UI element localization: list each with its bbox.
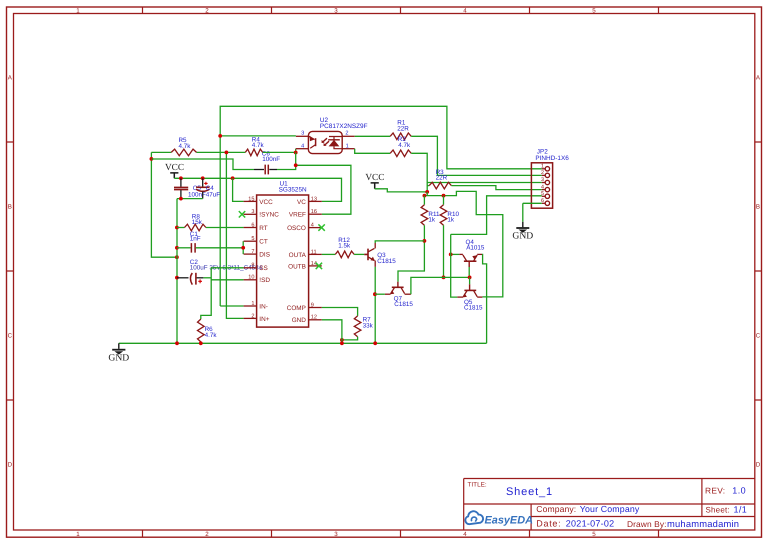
svg-text:2: 2: [251, 313, 254, 319]
U1 pin 3 !SYNC: [244, 213, 257, 215]
wire Q4 base down: [468, 267, 470, 277]
svg-text:OUTA: OUTA: [289, 252, 307, 259]
svg-text:VREF: VREF: [289, 212, 306, 219]
resistor R1: [390, 133, 411, 140]
wire net IN- / JP2 pin1: [220, 106, 542, 306]
resistor R10: [440, 205, 447, 225]
U1 pin 8 SS: [244, 267, 257, 269]
EasyEDA logo: [465, 511, 483, 524]
svg-text:2: 2: [205, 531, 209, 538]
svg-text:VCC: VCC: [165, 163, 184, 173]
VCC power symbol left: [170, 173, 178, 178]
U1 pin 2 IN+: [244, 317, 257, 319]
U2 pin 1: [342, 148, 355, 150]
svg-text:C1815: C1815: [394, 301, 413, 308]
junction: [231, 176, 235, 180]
svg-text:TITLE:: TITLE:: [468, 481, 487, 488]
svg-text:4: 4: [541, 184, 544, 190]
junction: [179, 176, 183, 180]
wire to C6 left: [151, 159, 254, 170]
wire R3 left: [427, 185, 429, 187]
transistor Q4 A1015: [464, 260, 477, 262]
svg-text:Sheet_1: Sheet_1: [506, 486, 553, 498]
U1 pin 15 VCC: [244, 200, 257, 202]
svg-text:Company:: Company:: [536, 504, 576, 514]
wire Q3 emitter to Q7 emitter: [375, 293, 385, 295]
U1 pin 7 DIS: [244, 253, 257, 255]
no-connect X OSCO: [318, 224, 324, 230]
svg-text:6: 6: [251, 222, 254, 228]
U1 pin 11 OUTA: [309, 253, 322, 255]
svg-text:8: 8: [251, 263, 254, 269]
wire C2 right: [203, 277, 211, 279]
svg-text:OUTB: OUTB: [288, 263, 306, 270]
svg-text:GND: GND: [292, 317, 307, 324]
wire C5 C4 bottoms: [177, 198, 203, 200]
title block: [464, 479, 755, 531]
svg-text:4: 4: [311, 223, 314, 229]
junction: [175, 276, 179, 280]
svg-text:VCC: VCC: [259, 199, 273, 206]
wire VCC rail to VC pin13: [174, 178, 341, 201]
svg-text:2021-07-02: 2021-07-02: [566, 519, 615, 529]
svg-text:4: 4: [301, 143, 304, 149]
capacitor C6: [254, 169, 264, 171]
wire Q4 collector: [451, 253, 460, 255]
svg-text:PC817X2NSZ9F: PC817X2NSZ9F: [320, 123, 368, 130]
U2 internal phototransistor: [315, 138, 317, 146]
U1 pin 14 OUTB: [309, 265, 322, 267]
svg-text:!SYNC: !SYNC: [259, 212, 279, 219]
svg-text:4.7k: 4.7k: [252, 142, 265, 149]
U1 pin 16 VREF: [309, 213, 322, 215]
wire left vertical to GND net: [151, 152, 177, 257]
U1 pin 4 OSCO: [309, 227, 322, 229]
optocoupler U2 PC817 body: [308, 131, 342, 153]
junction: [468, 276, 472, 280]
junction: [175, 246, 179, 250]
U2 pin 2: [342, 135, 355, 137]
transistor Q3 C1815: [364, 249, 368, 261]
wire output bracket left: [451, 234, 458, 297]
svg-text:3: 3: [301, 131, 304, 137]
wire Q7 collector to base node: [411, 277, 470, 294]
svg-text:PINHD-1X6: PINHD-1X6: [535, 155, 569, 162]
wire R5 left: [151, 151, 171, 153]
junction: [294, 163, 298, 167]
svg-text:A1015: A1015: [466, 244, 485, 251]
svg-text:4.7k: 4.7k: [205, 332, 218, 339]
svg-text:B: B: [8, 204, 12, 211]
wire U2 pin1 to R2: [355, 149, 391, 154]
wire R8 to RT: [206, 227, 244, 229]
svg-text:GND: GND: [108, 352, 129, 363]
U1 pin 12 GND: [309, 319, 322, 321]
svg-text:Drawn By:: Drawn By:: [627, 519, 667, 529]
wire to SS pin: [211, 267, 243, 269]
svg-text:GND: GND: [512, 231, 533, 242]
svg-text:1: 1: [251, 301, 254, 307]
wire node step: [426, 192, 428, 196]
wire R7 bottom: [342, 337, 358, 340]
JP2 pin 2: [542, 174, 545, 176]
svg-text:REV:: REV:: [705, 485, 725, 495]
svg-text:C1815: C1815: [377, 258, 396, 265]
connector JP2 PINHD-1X6 body: [531, 163, 552, 208]
wire VCC rail to pin15: [233, 178, 244, 201]
junction: [225, 151, 229, 155]
svg-text:IN-: IN-: [259, 303, 268, 310]
JP2 pin 3: [542, 182, 545, 184]
wire C1 left: [177, 247, 191, 249]
capacitor C4: [202, 178, 204, 187]
junction: [423, 194, 427, 198]
svg-text:1k: 1k: [447, 217, 455, 224]
svg-text:Date:: Date:: [536, 519, 561, 529]
U1 pin 5 CT: [244, 240, 257, 242]
svg-text:16: 16: [311, 209, 317, 215]
JP2 pin 1: [542, 168, 545, 170]
wire OUTA to R12: [322, 253, 336, 255]
svg-text:VC: VC: [297, 199, 306, 206]
U1 pin 13 VC: [309, 200, 322, 202]
svg-text:3: 3: [334, 8, 338, 15]
wire CT-DIS bracket: [242, 241, 244, 254]
svg-text:4: 4: [463, 531, 467, 538]
svg-text:CT: CT: [259, 239, 268, 246]
wire to !SD pin: [211, 279, 243, 281]
resistor R11: [421, 205, 428, 225]
wire to IN- pin: [220, 305, 243, 307]
svg-text:100nF: 100nF: [262, 156, 280, 163]
svg-text:1: 1: [76, 8, 80, 15]
svg-text:4.7k: 4.7k: [179, 143, 192, 150]
svg-text:B: B: [756, 204, 760, 211]
junction: [199, 341, 203, 345]
junction: [425, 190, 429, 194]
U2 pin 3: [296, 135, 308, 137]
svg-text:9: 9: [311, 302, 314, 308]
svg-text:5: 5: [251, 236, 254, 242]
junction: [373, 341, 377, 345]
resistor R7: [354, 316, 361, 337]
svg-text:COMP: COMP: [287, 305, 306, 312]
U2 pin 4: [296, 148, 309, 150]
resistor R4: [245, 149, 262, 156]
wire R10 top: [443, 196, 445, 205]
wire VCC2 to node: [375, 189, 428, 192]
resistor R2: [390, 150, 411, 157]
no-connect X SYNC: [239, 211, 245, 217]
wire C1 to CT/DIS: [196, 247, 243, 249]
resistor R3: [429, 182, 451, 189]
svg-text:!SD: !SD: [259, 277, 270, 284]
svg-text:OSCO: OSCO: [287, 225, 306, 232]
wire to JP2 pin3: [427, 182, 542, 184]
wire C6 to VREF node: [277, 165, 296, 169]
junction: [179, 197, 183, 201]
svg-text:1/1: 1/1: [734, 504, 748, 514]
svg-text:VCC: VCC: [365, 173, 384, 183]
svg-text:C: C: [8, 333, 13, 340]
svg-text:EasyEDA: EasyEDA: [485, 515, 534, 527]
svg-text:DIS: DIS: [259, 252, 270, 259]
wire COMP to R7: [322, 308, 358, 316]
wire GND drop: [522, 203, 524, 222]
resistor R5: [171, 149, 196, 156]
wire R2 to VCC node: [411, 153, 427, 192]
transistor Q7 C1815: [392, 286, 404, 288]
svg-text:2: 2: [345, 131, 348, 137]
svg-text:15: 15: [248, 196, 254, 202]
wire VCC to Q5 collector: [424, 191, 502, 297]
wire R11 top: [423, 196, 425, 205]
svg-text:3: 3: [541, 177, 544, 183]
wire Q4 emitter to GND rail: [482, 254, 487, 343]
JP2 pin 6: [542, 202, 545, 204]
svg-text:11: 11: [311, 249, 317, 255]
wire bottom GND rail: [119, 342, 487, 344]
svg-text:Sheet:: Sheet:: [706, 505, 730, 514]
wire R8 left: [177, 227, 185, 229]
svg-text:1: 1: [541, 164, 544, 170]
svg-text:7: 7: [251, 249, 254, 255]
no-connect X OUTB: [316, 263, 322, 269]
wire Q5 base up: [469, 277, 471, 284]
U1 pin 1 IN-: [244, 305, 257, 307]
capacitor C5: [180, 178, 182, 187]
wire to U2 pin3: [220, 135, 296, 137]
wire R11 bottom to Q7 base: [398, 225, 424, 282]
junction: [340, 341, 344, 345]
svg-text:1: 1: [76, 531, 80, 538]
junction: [423, 239, 427, 243]
svg-text:RT: RT: [259, 225, 267, 232]
wire SS vertical to R6: [201, 268, 211, 319]
svg-text:Your Company: Your Company: [580, 504, 640, 514]
wire node to VREF: [296, 152, 351, 214]
wire GND12 down: [322, 320, 342, 344]
junction: [218, 134, 222, 138]
svg-text:1.0: 1.0: [732, 485, 746, 495]
junction: [175, 255, 179, 259]
resistor R12: [335, 251, 354, 258]
svg-text:22R: 22R: [436, 175, 448, 182]
svg-text:1.5k: 1.5k: [338, 243, 351, 250]
junction: [442, 276, 446, 280]
junction: [241, 246, 245, 250]
svg-text:3: 3: [251, 209, 254, 215]
wire Q3 emitter down: [374, 267, 376, 343]
junction: [294, 151, 298, 155]
svg-text:12: 12: [311, 315, 317, 321]
wire output to JP2 pin5: [451, 196, 542, 235]
wire U2 pin2 to R1: [355, 135, 391, 137]
U1 pin 9 COMP: [309, 307, 322, 309]
svg-text:C: C: [756, 333, 761, 340]
wire R5-R4 row: [197, 151, 246, 153]
op-amp U1 SG3525N body: [257, 195, 309, 327]
ground symbol right: [522, 222, 524, 228]
svg-text:2: 2: [541, 170, 544, 176]
svg-text:4: 4: [463, 8, 467, 15]
svg-text:5: 5: [541, 191, 544, 197]
ground symbol left: [118, 343, 120, 349]
svg-text:1nF: 1nF: [190, 235, 201, 242]
svg-text:33k: 33k: [363, 323, 374, 330]
wire JP2 pin6 to GND: [523, 202, 542, 204]
junction: [340, 338, 344, 342]
junction: [175, 226, 179, 230]
svg-text:3: 3: [334, 531, 338, 538]
svg-text:1: 1: [346, 143, 349, 149]
U1 pin 6 RT: [244, 227, 257, 229]
svg-text:4.7k: 4.7k: [398, 142, 411, 149]
svg-text:IN+: IN+: [259, 316, 269, 323]
wire R6 bottom: [200, 342, 202, 343]
wire net IN+ from R4 junction: [226, 152, 243, 318]
wire left GND vertical: [176, 199, 178, 344]
JP2 pin 5: [542, 195, 545, 197]
svg-text:13: 13: [311, 196, 317, 202]
wire R12 to Q3 base: [354, 253, 364, 255]
svg-text:22R: 22R: [397, 125, 409, 132]
U2 internal LED: [329, 137, 342, 149]
JP2 pin 4: [542, 189, 545, 191]
junction: [373, 292, 377, 296]
svg-text:D: D: [756, 462, 761, 469]
resistor R8: [185, 224, 206, 231]
svg-text:muhammadamin: muhammadamin: [667, 518, 739, 529]
svg-text:47uF: 47uF: [206, 192, 221, 199]
wire R4 right to U2 pin4: [263, 149, 296, 153]
junction: [201, 176, 205, 180]
wire R10 bottom: [443, 225, 445, 277]
svg-text:15k: 15k: [192, 219, 203, 226]
wire R3 to JP2 pin4: [451, 186, 541, 190]
U1 pin 10 !SD: [244, 279, 257, 281]
wire Q3 collector to R11 net: [375, 241, 424, 243]
capacitor C2: [177, 277, 189, 279]
VCC power symbol right: [371, 183, 379, 189]
svg-text:C1815: C1815: [464, 305, 483, 312]
resistor R6: [198, 319, 205, 342]
junction: [150, 157, 154, 161]
transistor Q5 C1815: [464, 289, 476, 291]
svg-text:SS: SS: [259, 265, 268, 272]
svg-text:5: 5: [592, 531, 596, 538]
wire R1 to JP2 pin2: [411, 136, 542, 175]
junction: [449, 253, 453, 257]
svg-text:10: 10: [248, 275, 254, 281]
svg-text:1k: 1k: [428, 217, 436, 224]
svg-text:SG3525N: SG3525N: [279, 186, 307, 193]
svg-text:D: D: [8, 462, 13, 469]
svg-text:5: 5: [592, 8, 596, 15]
svg-text:2: 2: [205, 8, 209, 15]
junction: [175, 341, 179, 345]
junction: [442, 194, 446, 198]
